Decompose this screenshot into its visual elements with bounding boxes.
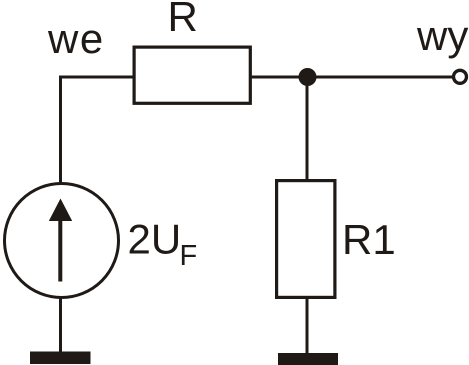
node junction dot [299, 68, 317, 86]
ground right [278, 353, 338, 365]
svg-text:wy: wy [416, 12, 468, 59]
svg-text:we: we [47, 15, 105, 62]
svg-text:F: F [180, 240, 198, 272]
wire resistor R1 to ground [306, 297, 309, 354]
ground left [30, 352, 91, 365]
wire junction to resistor R1 [306, 80, 309, 180]
wire we corner to resistor R [61, 77, 135, 183]
terminal wy open circle [454, 70, 467, 83]
wire resistor R to wy terminal [250, 76, 453, 79]
source U1 circle [5, 184, 119, 298]
wire source to ground [59, 298, 62, 353]
source arrow shaft [58, 218, 62, 282]
resistor R1 [277, 181, 335, 298]
svg-text:2U: 2U [128, 216, 182, 263]
svg-text:R: R [168, 0, 198, 40]
svg-text:R1: R1 [342, 216, 396, 263]
resistor R [134, 47, 250, 103]
source arrow head [49, 199, 72, 222]
